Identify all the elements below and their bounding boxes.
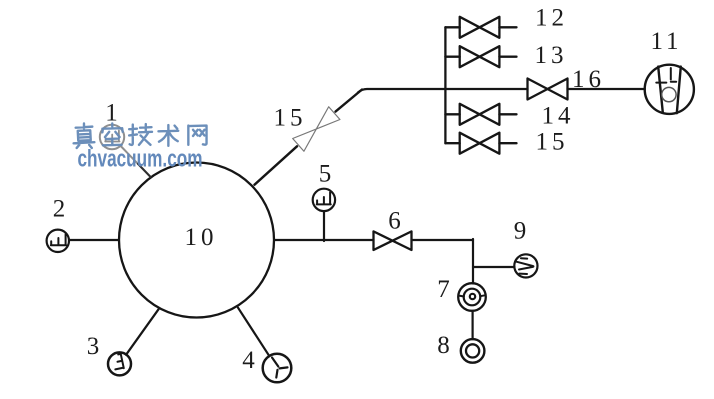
svg-text:5: 5 — [319, 161, 336, 188]
svg-text:6: 6 — [388, 208, 405, 235]
svg-text:9: 9 — [514, 218, 531, 245]
valve V15 diagonal (thin) — [293, 107, 340, 151]
valve V6 — [374, 231, 412, 250]
wire chamber to valve 15 lower — [255, 146, 298, 184]
char shu — [158, 125, 178, 146]
svg-text:4: 4 — [242, 347, 259, 374]
svg-text:chvacuum.com: chvacuum.com — [78, 146, 203, 173]
wire stub valve 13 — [445, 56, 516, 58]
wire stub valve 12 — [445, 26, 516, 28]
svg-text:7: 7 — [437, 276, 454, 303]
valve V13 — [460, 46, 500, 67]
char wang — [188, 126, 206, 145]
svg-text:3: 3 — [87, 333, 104, 360]
wire corner down to gauge 7 — [472, 239, 474, 284]
wire valve 6 to corner — [412, 239, 474, 241]
svg-text:13: 13 — [535, 42, 568, 69]
wire gauge 1 to chamber (under watermark) — [121, 146, 138, 164]
svg-text:16: 16 — [572, 66, 605, 93]
gauge 1 (under watermark, gray) — [100, 125, 124, 149]
valve V12 — [460, 17, 500, 38]
char zhen — [74, 124, 95, 148]
valve V16 — [528, 79, 568, 100]
chamber 10 (vacuum chamber circle) — [119, 163, 274, 318]
svg-text:14: 14 — [542, 103, 575, 130]
gauge 2 (thermocouple gauge) — [47, 230, 69, 252]
valve V15 bottom — [460, 133, 500, 154]
wire chamber to gauge 3 — [126, 309, 158, 354]
gauge 11 (ionization gauge tube) — [645, 65, 694, 114]
svg-text:15: 15 — [536, 129, 569, 156]
gauge 3 (thermocouple gauge, rotated) — [108, 352, 131, 375]
wire valve 16 to gauge 11 — [568, 88, 645, 90]
svg-text:1: 1 — [105, 100, 122, 127]
wire stub valve 14 — [445, 113, 516, 115]
wire stub valve 15 bottom — [445, 142, 516, 144]
wire branch to gauge 9 — [473, 266, 515, 268]
wire chamber to valve 6 — [275, 239, 374, 241]
wire valve 15 to bend — [336, 90, 363, 112]
watermark hanzi 真空技术网 — [74, 124, 207, 148]
svg-text:8: 8 — [437, 332, 454, 359]
svg-text:12: 12 — [535, 5, 568, 32]
gauge 4 (ionization gauge with radial ticks) — [263, 354, 292, 383]
svg-text:15: 15 — [274, 105, 307, 132]
gauge 7 (pump, concentric circles with dot) — [458, 283, 486, 311]
wire gauge 5 stub — [323, 211, 325, 241]
wire bend horizontal to valve 16 — [358, 89, 528, 93]
gauge 5 (thermocouple gauge) — [313, 189, 335, 211]
gauge 8 (pump, double circle) — [461, 339, 485, 363]
wire chamber to gauge 4 — [238, 308, 269, 357]
char kong — [102, 124, 122, 146]
svg-text:11: 11 — [650, 28, 682, 55]
svg-text:2: 2 — [53, 196, 70, 223]
char ji — [129, 124, 152, 145]
wire chamber to gauge 2 — [69, 239, 119, 241]
wire gauge 7 to gauge 8 — [472, 311, 474, 339]
gauge 9 (gauge with sigma symbol) — [514, 254, 537, 277]
valve V14 — [460, 104, 500, 125]
svg-text:10: 10 — [185, 224, 218, 251]
manifold vertical line — [444, 27, 446, 143]
